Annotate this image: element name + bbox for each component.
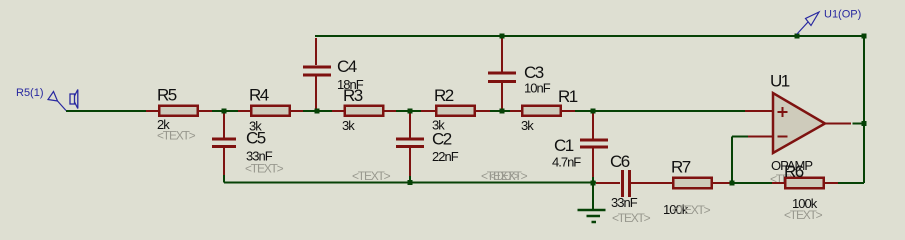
wire inverting input horizontal <box>732 136 748 138</box>
node R2/R1/C3 junction <box>500 109 505 114</box>
node top right corner junction <box>862 34 867 39</box>
svg-text:<TEXT>: <TEXT> <box>612 211 651 225</box>
svg-text:<TEXT>: <TEXT> <box>245 162 284 176</box>
ground bar 1 <box>578 209 606 212</box>
resistor R3 <box>332 86 396 133</box>
C3 bottom plate <box>488 80 516 83</box>
wire C5 bottom vertical <box>223 174 225 183</box>
ground bar 3 <box>592 221 597 224</box>
svg-text:18nF: 18nF <box>337 77 364 92</box>
node R3/R2/C2 junction <box>408 109 413 114</box>
svg-text:R7: R7 <box>671 158 691 177</box>
C6 right plate <box>628 170 631 197</box>
svg-text:<TEXT>: <TEXT> <box>672 203 711 217</box>
R7 left pin <box>661 182 674 184</box>
C1 bottom plate <box>580 146 608 149</box>
R4 body <box>251 106 290 116</box>
speaker cone <box>75 90 78 109</box>
R1 body <box>522 106 561 116</box>
capacitor C3 <box>488 38 551 109</box>
node label R5(1) <box>16 87 66 111</box>
svg-text:R5: R5 <box>157 86 177 105</box>
svg-text:C4: C4 <box>337 57 357 76</box>
R7 right pin <box>712 182 731 184</box>
R3 left pin <box>332 110 345 112</box>
R3 right pin <box>382 110 396 112</box>
svg-text:C1: C1 <box>554 136 574 155</box>
capacitor C1 <box>481 113 608 183</box>
node feedback junction <box>730 181 735 186</box>
U1 minus symbol <box>778 136 788 138</box>
svg-text:<TEXT>: <TEXT> <box>352 169 391 183</box>
svg-text:3k: 3k <box>342 118 355 133</box>
speaker input terminal icon <box>70 90 78 109</box>
op-amp U1 <box>745 72 864 174</box>
C4 top plate <box>303 66 331 69</box>
wire feedback vertical (bottom node up to inverting input) <box>731 137 733 184</box>
R2 body <box>436 106 475 116</box>
svg-text:U1(OP): U1(OP) <box>824 9 861 21</box>
node C3 top junction <box>500 34 505 39</box>
capacitor C2 <box>352 113 459 183</box>
resistor R7 <box>661 158 731 218</box>
U1 inverting input pin <box>748 136 772 138</box>
svg-text:<TEXT>: <TEXT> <box>157 129 196 143</box>
svg-text:R1: R1 <box>558 87 578 106</box>
U1 triangle body <box>773 93 825 153</box>
C1 top plate <box>580 139 608 142</box>
svg-text:U1: U1 <box>770 72 790 91</box>
svg-text:R4: R4 <box>249 86 269 105</box>
C6 right pin <box>631 182 673 184</box>
svg-text:C6: C6 <box>610 152 630 171</box>
node R5/R4/C5 junction <box>222 109 227 114</box>
C1 top pin <box>592 113 594 139</box>
R1 left pin <box>510 110 523 112</box>
node ground junction <box>591 181 596 186</box>
C3 bottom pin <box>501 83 503 109</box>
C5 bottom pin <box>223 148 225 175</box>
svg-text:R5(1): R5(1) <box>16 87 44 99</box>
C1 bottom pin <box>592 149 594 178</box>
U1 plus symbol <box>778 111 788 113</box>
svg-text:C2: C2 <box>432 130 452 149</box>
U1 output pin <box>825 123 851 125</box>
C2 top pin <box>409 113 411 138</box>
R5 right pin <box>198 110 212 112</box>
C6 left plate <box>621 170 624 197</box>
ground bar 2 <box>587 215 601 218</box>
R6 left pin <box>772 182 785 184</box>
R5 body <box>159 106 198 116</box>
wire top horizontal (C4 top to right vertical) <box>315 35 864 37</box>
resistor R4 <box>238 86 303 134</box>
U1(OP) pointer triangle <box>806 12 820 26</box>
svg-text:C3: C3 <box>524 63 544 82</box>
R5(1) pointer triangle <box>48 92 58 102</box>
C5 bottom plate <box>212 145 236 148</box>
resistor R2 <box>421 86 490 133</box>
C3 top pin <box>501 38 503 72</box>
svg-text:3k: 3k <box>521 118 534 133</box>
U1(OP) pointer line <box>797 22 808 34</box>
svg-text:33nF: 33nF <box>611 195 638 210</box>
C4 top pin <box>315 38 317 65</box>
R7 body <box>673 178 712 189</box>
R1 right pin <box>561 110 575 112</box>
ground <box>578 185 606 222</box>
wire right vertical (top wire down to output row) <box>863 36 865 183</box>
resistor R6 <box>770 162 838 222</box>
C5 top plate <box>212 138 236 141</box>
R2 right pin <box>475 110 490 112</box>
capacitor C5 <box>212 113 284 176</box>
svg-text:OPAMP: OPAMP <box>771 158 812 173</box>
R5(1) pointer line <box>58 101 67 111</box>
svg-text:10nF: 10nF <box>524 81 551 96</box>
node R4/R3/C4 junction <box>315 109 320 114</box>
R2 left pin <box>421 110 436 112</box>
C6 left pin <box>596 182 620 184</box>
capacitor C6 <box>596 152 673 225</box>
node C2 bottom junction <box>408 180 413 185</box>
svg-text:22nF: 22nF <box>432 149 459 164</box>
svg-text:C5: C5 <box>246 129 266 148</box>
wire R7 node to R6 <box>730 182 773 184</box>
node op-amp output junction <box>862 121 867 126</box>
R4 left pin <box>238 110 251 112</box>
wire main horizontal (input to op-amp non-inverting input) <box>66 110 747 112</box>
capacitor C4 <box>303 38 364 109</box>
C3 top plate <box>488 72 516 75</box>
wire C2 bottom vertical <box>409 175 411 183</box>
svg-text:<TEXT>: <TEXT> <box>489 169 528 183</box>
R5 left pin <box>146 110 159 112</box>
R3 body <box>345 106 384 116</box>
R6 right pin <box>824 182 838 184</box>
speaker driver box <box>70 94 75 104</box>
R6 body <box>785 178 824 189</box>
C4 bottom pin <box>315 77 317 110</box>
C2 bottom pin <box>409 148 411 176</box>
resistor R1 <box>510 87 578 133</box>
wire output stub to junction <box>853 123 865 125</box>
node label U1(OP) <box>797 9 861 35</box>
node R1/C1 junction <box>591 109 596 114</box>
svg-text:<TEXT>: <TEXT> <box>784 208 823 222</box>
ground lead <box>592 185 594 209</box>
C4 bottom plate <box>303 74 331 77</box>
wire bottom horizontal (C5 to ground node) <box>224 182 596 184</box>
svg-text:R2: R2 <box>434 86 454 105</box>
wire C1 bottom vertical <box>592 176 594 183</box>
svg-text:4.7nF: 4.7nF <box>552 155 581 170</box>
C2 bottom plate <box>396 145 424 148</box>
resistor R5 <box>146 86 212 143</box>
C5 top pin <box>223 113 225 138</box>
node U1(OP) label junction <box>795 34 800 39</box>
R4 right pin <box>289 110 303 112</box>
C2 top plate <box>396 138 424 141</box>
wire bottom right horizontal (R6 to right vertical) <box>837 182 864 184</box>
U1 non-inverting input pin <box>745 110 772 112</box>
